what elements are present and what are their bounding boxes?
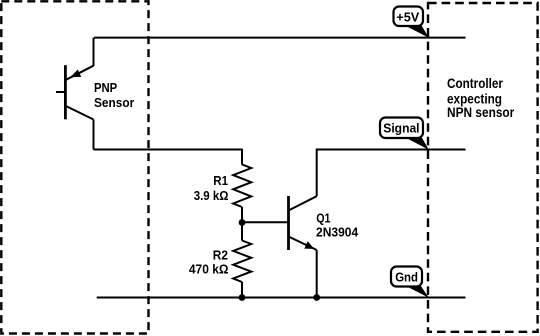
sensor boundary box (dashed) — [1, 1, 148, 333]
label R1 value — [194, 174, 229, 203]
node Q1 emitter ground junction — [313, 294, 320, 301]
svg-text:PNP: PNP — [94, 81, 117, 95]
wire PNP emitter riser — [93, 38, 95, 66]
wire +5V rail — [94, 37, 466, 39]
wire Q1 emitter drop to ground — [316, 250, 318, 298]
tag Signal — [380, 118, 429, 150]
svg-text:2N3904: 2N3904 — [316, 226, 358, 240]
svg-text:Signal: Signal — [383, 121, 419, 136]
wire sensor output to R1 — [94, 149, 243, 151]
transistor Q1 — [289, 196, 317, 250]
svg-text:Sensor: Sensor — [94, 96, 134, 110]
text Controller expecting NPN sensor — [447, 76, 515, 120]
resistor R2 — [233, 223, 251, 298]
label Q1 — [316, 212, 358, 240]
svg-text:NPN sensor: NPN sensor — [447, 105, 515, 120]
label R2 value — [189, 249, 229, 277]
wire base of Q1 — [242, 221, 287, 223]
svg-text:Gnd: Gnd — [395, 270, 418, 285]
wire Q1 collector riser to Signal — [317, 150, 466, 197]
controller boundary box (dashed) — [428, 3, 538, 332]
tag Gnd — [391, 267, 429, 298]
tag +5V — [394, 7, 429, 38]
svg-text:R1: R1 — [213, 174, 228, 188]
resistor R1 — [233, 149, 251, 223]
svg-text:470 kΩ: 470 kΩ — [189, 262, 229, 276]
text PNP Sensor — [94, 81, 134, 110]
svg-text:+5V: +5V — [396, 9, 419, 24]
svg-text:3.9 kΩ: 3.9 kΩ — [194, 189, 229, 203]
svg-text:R2: R2 — [213, 249, 228, 263]
node R2 ground junction — [239, 294, 246, 301]
svg-text:Q1: Q1 — [316, 212, 330, 226]
node base junction — [239, 219, 246, 226]
svg-text:Controller: Controller — [447, 76, 504, 91]
wire ground rail — [97, 297, 466, 299]
transistor PNP (sensor output) — [56, 65, 94, 119]
wire PNP collector drop — [93, 120, 95, 150]
